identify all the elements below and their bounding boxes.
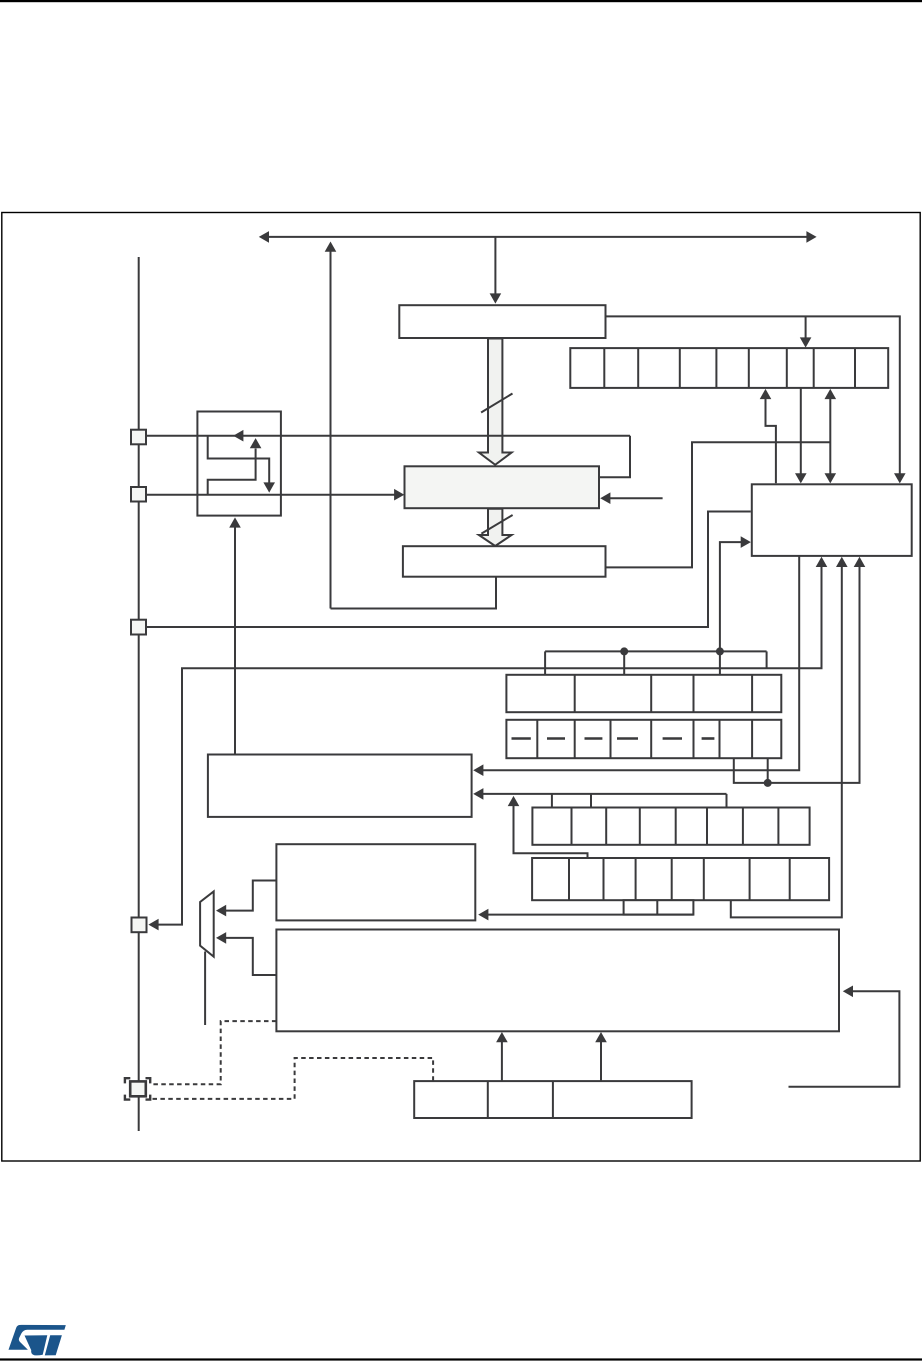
wire register bus A	[545, 650, 767, 652]
arrowhead riser into top bus	[325, 242, 337, 252]
arrowhead right of top bus	[806, 231, 816, 243]
box receiver control	[208, 755, 472, 817]
arrowhead register4 onto bus	[508, 796, 520, 806]
wire riser bottom run to shift register	[331, 578, 497, 609]
box control register 1 with fields	[506, 675, 781, 712]
arrowhead into RTS pin square	[148, 919, 158, 931]
arrowhead into generator bottom 2	[595, 1032, 607, 1042]
arrowhead double down	[825, 473, 837, 483]
arrowhead into control box bottom 1	[816, 557, 828, 567]
junction dot A2	[716, 647, 724, 655]
wire register4 up to bus	[514, 806, 588, 859]
box sub cells under register 4	[624, 900, 694, 914]
arrowhead into mux 1	[216, 905, 226, 917]
box control	[752, 484, 912, 556]
wire vertical riser to top bus	[330, 252, 332, 609]
arrowhead into receiver control right 2	[473, 788, 483, 800]
wire RDR to double arrow	[606, 442, 831, 567]
wire top data bus	[267, 236, 809, 238]
arrowhead into control box bottom 3	[854, 557, 866, 567]
box pin swap	[197, 412, 281, 516]
wire transmit enable to swap box	[234, 528, 236, 755]
box bottom register row	[414, 1081, 691, 1118]
dashed wire generator to CK-like pin	[153, 1021, 277, 1084]
wire swap crossover RX to TX	[208, 449, 256, 495]
dashed bracket around optional pin	[125, 1078, 130, 1083]
wire transmitter control to mux	[224, 881, 276, 911]
bus arrow DR to shift register	[479, 339, 512, 465]
arrowhead swap onto RX line	[263, 482, 275, 492]
junction dot register2	[764, 779, 772, 787]
bus width slash 2	[481, 515, 512, 534]
wire branch down to transmit shift register	[805, 316, 807, 338]
arrowhead double up	[825, 389, 837, 399]
bus width slash 1	[481, 394, 512, 413]
arrowhead into transmit shift register top	[800, 337, 812, 347]
arrowhead into control box top 2	[795, 473, 807, 483]
page header rule	[0, 0, 922, 2]
wire DR to right side	[606, 316, 900, 474]
box baud register 4 with fields	[532, 858, 829, 900]
box baud rate generator	[276, 930, 839, 1032]
wire register3 to receiver control	[481, 793, 727, 795]
mux trapezoid	[200, 891, 214, 956]
box baud register 3 with fields	[532, 808, 809, 845]
arrowhead into control box left	[741, 536, 751, 548]
wire sample clock stub	[609, 497, 663, 499]
box data register DR	[399, 305, 605, 338]
pin square RTS	[132, 918, 147, 933]
wire register bit to control box left	[720, 542, 745, 675]
wire clock hook	[789, 991, 900, 1087]
arrowhead up under shift register	[760, 389, 772, 399]
arrowhead into mux 2	[216, 932, 226, 944]
arrowhead into data register top	[490, 293, 502, 303]
wire RX input path	[147, 494, 397, 496]
wire TX output path	[147, 435, 631, 437]
box receive data register RDR	[403, 546, 606, 577]
wire mux output stub	[204, 952, 206, 1026]
arrowhead into generator bottom 1	[496, 1032, 508, 1042]
wire shift register bit to control	[766, 398, 776, 484]
arrowhead into control box bottom 2	[836, 557, 848, 567]
figure frame	[2, 213, 920, 1162]
wire swap crossover TX to RX	[208, 436, 270, 483]
pin square CK	[131, 620, 146, 635]
arrowhead into swap box bottom	[229, 517, 241, 527]
wire bottom register to generator 1	[501, 1041, 503, 1081]
wire CK pin to control box	[147, 512, 751, 628]
wire double arrow shift-control	[829, 398, 831, 475]
arrowhead into transmitter control right	[478, 909, 488, 921]
arrowhead into control box top right	[894, 473, 906, 483]
arrowhead RX into receive shift register	[394, 489, 404, 501]
box receive shift register (shaded)	[405, 466, 600, 508]
pin square RX	[131, 487, 146, 502]
wire control to receiver control	[481, 556, 799, 770]
wire register2 bit drop	[767, 758, 769, 783]
box transmitter control	[276, 844, 475, 920]
wire drop from top bus to data register	[494, 237, 496, 295]
box transmit shift register with bit cells	[570, 348, 888, 388]
wire control to RTS pin	[156, 567, 822, 925]
junction dot A1	[620, 647, 628, 655]
wire register2 to control box	[734, 567, 860, 783]
wire subcell to transmitter control	[486, 914, 693, 916]
wire control to register4	[731, 567, 842, 918]
page footer rule	[0, 1358, 922, 1360]
ST logo	[9, 1325, 66, 1356]
arrowhead sample clock into receive shift register	[600, 492, 610, 504]
pin square optional	[130, 1081, 146, 1096]
arrowhead into generator right	[843, 986, 853, 998]
box control register 2 with flag dashes	[506, 720, 781, 758]
pin square TX	[131, 430, 146, 445]
wire baud generator to mux	[224, 938, 276, 975]
bus arrow shift register to RDR	[479, 509, 512, 546]
arrowhead into receiver control right 1	[473, 764, 483, 776]
arrowhead left of top bus	[259, 231, 269, 243]
wire bottom register to generator 2	[600, 1041, 602, 1081]
wire shift register to control straight	[800, 388, 802, 474]
arrowhead swap onto TX line	[250, 438, 262, 448]
arrowhead TX toward pin	[233, 430, 243, 442]
wire IO pin rail	[138, 257, 140, 1131]
dashed wire pin to bottom register	[153, 1058, 434, 1099]
